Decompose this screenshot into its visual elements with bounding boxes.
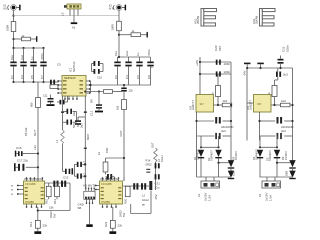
svg-text:1k2: 1k2 (223, 99, 228, 103)
svg-text:R14: R14 (146, 159, 151, 163)
svg-text:1SVGB8: 1SVGB8 (25, 182, 36, 186)
svg-text:337: 337 (257, 102, 262, 106)
svg-text:LM337T: LM337T (249, 100, 253, 110)
svg-text:35V: 35V (154, 194, 158, 199)
svg-text:C1: C1 (10, 75, 14, 79)
svg-text:4u7: 4u7 (83, 173, 87, 178)
svg-text:C17 22u: C17 22u (17, 159, 28, 163)
svg-text:1k: 1k (97, 151, 101, 155)
svg-text:air: air (142, 203, 145, 207)
svg-text:1.5A: 1.5A (269, 195, 273, 201)
svg-text:LS: LS (61, 12, 65, 16)
svg-text:1u: 1u (30, 56, 34, 60)
svg-text:SUF4007: SUF4007 (196, 148, 200, 160)
svg-text:L2: L2 (142, 194, 146, 198)
svg-text:2u2: 2u2 (80, 123, 84, 128)
svg-text:C2: C2 (114, 75, 118, 79)
svg-text:OUT: OUT (151, 142, 155, 148)
svg-text:100n: 100n (286, 45, 290, 52)
svg-text:C12: C12 (90, 110, 94, 116)
svg-text:10u: 10u (10, 55, 14, 60)
svg-text:D6B: D6B (285, 171, 289, 176)
svg-text:22u: 22u (72, 111, 76, 116)
svg-text:C15: C15 (16, 146, 22, 150)
svg-text:R5 22k: R5 22k (24, 127, 28, 136)
svg-text:10uH: 10uH (160, 156, 164, 162)
svg-text:X1: X1 (197, 193, 201, 197)
svg-text:C8: C8 (147, 75, 151, 79)
svg-text:470n: 470n (147, 49, 151, 56)
svg-text:+24V: +24V (195, 60, 199, 66)
svg-text:10u: 10u (114, 51, 118, 56)
svg-text:C11: C11 (43, 94, 48, 98)
svg-text:1k5: 1k5 (116, 105, 120, 110)
svg-text:22k: 22k (43, 224, 48, 228)
svg-text:L1: L1 (55, 139, 59, 143)
svg-text:OSVB5: OSVB5 (101, 200, 110, 204)
svg-text:35K/W: 35K/W (196, 15, 200, 24)
svg-text:=: = (151, 66, 153, 70)
svg-text:C3: C3 (20, 75, 24, 79)
svg-text:IN R: IN R (109, 7, 114, 10)
svg-text:SUF4007: SUF4007 (210, 149, 214, 161)
svg-text:K3: K3 (72, 26, 76, 30)
svg-text:SUF4007: SUF4007 (255, 148, 259, 160)
svg-text:OUT: OUT (119, 130, 123, 136)
svg-text:R22: R22 (104, 221, 108, 227)
svg-text:IN L: IN L (3, 7, 8, 10)
svg-text:1N4007: 1N4007 (284, 150, 288, 160)
svg-text:+IN: +IN (33, 145, 37, 150)
svg-text:C9: C9 (57, 63, 61, 67)
svg-text:100R: 100R (111, 24, 115, 30)
svg-text:NE5532P: NE5532P (64, 76, 76, 80)
svg-text:22k: 22k (129, 89, 134, 93)
svg-text:R9: R9 (90, 99, 94, 103)
svg-text:MKP: MKP (86, 134, 90, 140)
svg-text:SB: SB (78, 206, 82, 210)
svg-text:1.5A: 1.5A (208, 195, 212, 201)
svg-text:R11: R11 (53, 199, 57, 204)
svg-text:SUF4007: SUF4007 (268, 149, 272, 161)
svg-text:C6: C6 (136, 75, 140, 79)
svg-text:3u3: 3u3 (221, 129, 226, 133)
svg-text:C4: C4 (125, 75, 129, 79)
svg-text:0R22: 0R22 (146, 162, 153, 166)
svg-text:R12: R12 (29, 221, 33, 227)
svg-text:C7: C7 (40, 75, 44, 79)
svg-text:-24V: -24V (242, 70, 246, 76)
svg-text:5W: 5W (53, 213, 57, 218)
svg-text:1SVGB8: 1SVGB8 (101, 182, 112, 186)
svg-text:4u7: 4u7 (83, 161, 87, 166)
svg-text:R20: R20 (124, 198, 128, 204)
svg-text:LM317T: LM317T (191, 100, 195, 110)
svg-text:5W: 5W (122, 212, 126, 217)
svg-text:1k2: 1k2 (281, 99, 286, 103)
svg-text:22k: 22k (118, 224, 123, 228)
svg-text:C5: C5 (30, 75, 34, 79)
svg-text:10R: 10R (105, 148, 109, 153)
svg-text:15k: 15k (49, 206, 54, 210)
svg-text:R10: R10 (45, 198, 49, 204)
svg-text:680: 680 (30, 102, 34, 107)
svg-text:OUT: OUT (33, 130, 37, 136)
svg-text:100R: 100R (6, 25, 10, 31)
svg-text:C10: C10 (97, 76, 102, 80)
svg-text:K5 MUTE: K5 MUTE (84, 184, 96, 188)
svg-text:3u3: 3u3 (283, 73, 288, 77)
svg-text:3u3: 3u3 (281, 129, 286, 133)
svg-text:317: 317 (200, 102, 205, 106)
svg-text:470n: 470n (40, 53, 44, 60)
svg-text:C13: C13 (63, 176, 69, 180)
svg-text:NE5532: NE5532 (72, 61, 76, 72)
svg-text:1u: 1u (136, 52, 140, 56)
svg-text:35K/W: 35K/W (255, 15, 259, 24)
svg-text:OSVB5: OSVB5 (25, 200, 34, 204)
svg-text:100n: 100n (224, 70, 231, 74)
svg-text:2u2: 2u2 (125, 51, 129, 56)
svg-text:D3B: D3B (231, 171, 235, 176)
svg-text:10uH: 10uH (142, 198, 149, 202)
svg-text:X2: X2 (258, 193, 262, 197)
svg-text:1N4007: 1N4007 (234, 150, 238, 160)
svg-text:100n: 100n (224, 62, 231, 66)
svg-text:63V: 63V (218, 46, 222, 51)
svg-text:2u2: 2u2 (20, 55, 24, 60)
